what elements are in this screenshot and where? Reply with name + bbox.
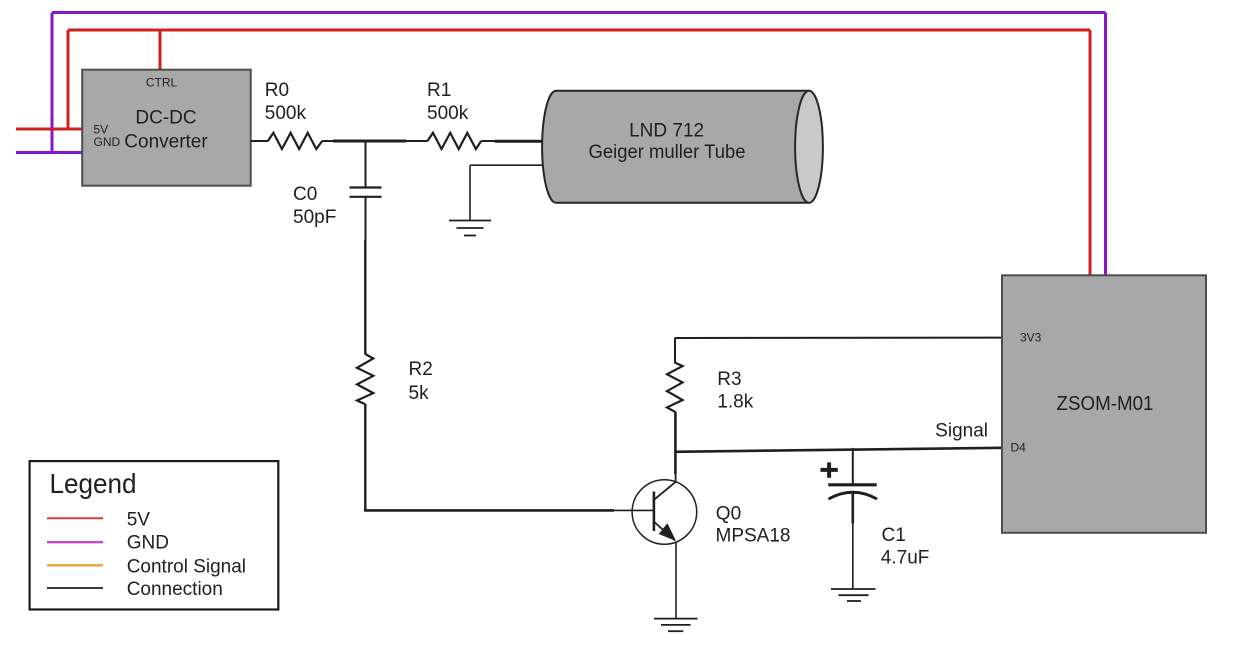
ZSOM-M01 box U1 — [1002, 275, 1206, 533]
resistor R1 — [428, 133, 482, 149]
svg-text:Control Signal: Control Signal — [127, 556, 246, 577]
wire DC-DC output to R0 — [251, 140, 268, 142]
resistor R0 — [268, 133, 322, 149]
svg-text:MPSA18: MPSA18 — [716, 526, 791, 547]
svg-text:D4: D4 — [1011, 441, 1027, 455]
legend 5V sample line — [47, 517, 103, 519]
svg-text:50pF: 50pF — [293, 207, 336, 228]
resistor R3 — [667, 363, 683, 412]
svg-text:Q0: Q0 — [716, 504, 741, 525]
svg-text:R0: R0 — [265, 80, 289, 101]
svg-text:R1: R1 — [427, 80, 451, 101]
svg-text:3V3: 3V3 — [1020, 331, 1042, 345]
ground (Q0) — [654, 619, 698, 632]
legend Connection sample line — [47, 587, 103, 589]
wire R0 to node (thick) — [322, 140, 334, 142]
wire R2 to Q0 base — [364, 404, 655, 510]
legend box — [30, 461, 279, 609]
wire 3V3 line — [675, 337, 1002, 339]
ground (C1) — [831, 589, 876, 601]
svg-text:Converter: Converter — [124, 132, 208, 153]
svg-text:4.7uF: 4.7uF — [881, 548, 930, 569]
svg-text:ZSOM-M01: ZSOM-M01 — [1057, 393, 1154, 415]
svg-text:C0: C0 — [293, 184, 317, 205]
svg-text:GND: GND — [94, 135, 121, 149]
DC-DC Converter box U0 — [82, 70, 251, 186]
ground (tube) — [449, 221, 491, 236]
plus sign C1 — [821, 462, 838, 477]
svg-text:5V: 5V — [127, 509, 151, 530]
svg-text:C1: C1 — [882, 525, 906, 546]
svg-text:5k: 5k — [409, 383, 430, 404]
capacitor C0 — [350, 141, 382, 242]
svg-text:500k: 500k — [265, 103, 307, 124]
wire Q0 collector — [674, 412, 677, 474]
legend GND sample line — [47, 541, 103, 543]
wire GND net (purple) — [16, 13, 1106, 276]
svg-text:Connection: Connection — [127, 579, 223, 600]
svg-text:500k: 500k — [427, 103, 469, 124]
svg-text:Geiger muller Tube: Geiger muller Tube — [589, 142, 746, 163]
resistor R2 — [357, 354, 373, 404]
wire CTRL (red) — [159, 30, 162, 70]
svg-text:R3: R3 — [717, 369, 741, 390]
svg-text:LND 712: LND 712 — [629, 121, 704, 142]
wire node to R1 — [406, 140, 428, 142]
wire Signal line — [674, 448, 1002, 452]
svg-text:Legend: Legend — [50, 468, 137, 499]
capacitor C1 — [828, 448, 877, 589]
LND 712 Geiger muller tube — [542, 91, 823, 203]
wire tube cathode to ground stub — [470, 165, 544, 220]
wire C0 to R2 — [364, 240, 366, 355]
transistor Q0 — [632, 474, 697, 544]
svg-text:Signal: Signal — [935, 421, 988, 442]
svg-text:DC-DC: DC-DC — [135, 108, 196, 129]
svg-text:GND: GND — [127, 533, 169, 554]
wire 5V net (red) — [16, 30, 1090, 275]
wire R1 to tube (thick) — [481, 140, 496, 142]
wire R3 top lead — [674, 338, 676, 364]
svg-text:R2: R2 — [409, 359, 433, 380]
wire Q0 emitter — [675, 542, 677, 619]
svg-text:CTRL: CTRL — [146, 76, 178, 90]
legend Control Signal sample line — [47, 564, 103, 566]
svg-text:1.8k: 1.8k — [717, 392, 753, 413]
